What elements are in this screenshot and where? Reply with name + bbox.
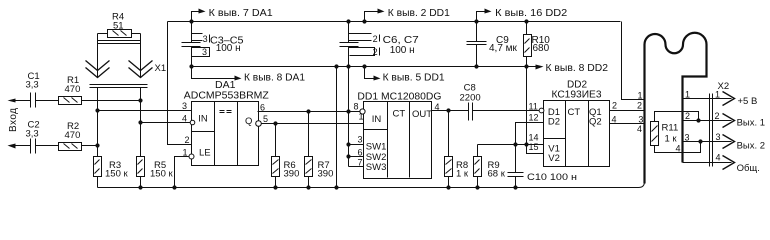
svg-text:2200: 2200 [460,92,481,103]
svg-text:51: 51 [113,21,124,32]
svg-text:Вых. 2: Вых. 2 [737,141,765,152]
svg-text:1 к: 1 к [665,134,678,145]
wire R9 to DD2 pins 14/15 [478,144,544,146]
svg-text:К выв. 8 DD2: К выв. 8 DD2 [546,63,609,74]
svg-text:3: 3 [638,115,643,125]
X1 upper bars [98,41,141,44]
svg-text:4: 4 [637,124,642,134]
svg-text:390: 390 [284,168,300,179]
svg-text:1: 1 [183,148,188,158]
ground vertical x336 [334,64,338,68]
IC DA1 box [192,102,259,166]
svg-text:8: 8 [354,102,359,112]
resistor R7 [306,109,310,113]
connector X1 [97,34,99,78]
svg-text:DD1 MC12080DG: DD1 MC12080DG [357,90,441,102]
capacitor C9 [474,19,478,23]
svg-text:X2: X2 [718,81,730,92]
svg-text:3,3: 3,3 [26,80,39,91]
IC DD2 box [544,101,610,167]
capacitor group C3-C5 [189,19,193,23]
svg-text:X1: X1 [155,63,167,74]
svg-text:LE: LE [199,148,211,159]
resistor R3 [94,157,102,177]
svg-text:CT: CT [568,107,581,118]
top +5V rail [168,21,621,23]
svg-text:100 н: 100 н [216,43,241,54]
svg-text:3: 3 [716,132,721,142]
svg-text:3: 3 [203,34,208,44]
pin16 DD2 stub arrow [477,12,486,22]
DA1 pin 5 circle + wire [256,121,262,127]
resistor R10 [524,19,528,23]
X2 bracket lines [710,94,713,167]
svg-text:2: 2 [637,101,642,111]
svg-text:3,3: 3,3 [26,128,39,139]
R11 bottom lead wire [655,142,701,153]
svg-text:14: 14 [529,133,539,143]
bottom ground rail [98,182,645,188]
svg-text:3: 3 [358,134,363,144]
svg-text:68 к: 68 к [488,168,506,179]
svg-text:C10 100 н: C10 100 н [527,172,577,183]
X1 right leg down [140,88,142,157]
pin8 DA1 stub arrow [192,67,236,79]
resistor R4 [108,30,132,38]
mid rail [192,66,536,68]
svg-text:SW3: SW3 [366,162,387,173]
capacitor C2 [31,139,36,154]
pin5 DD1 stub arrow [362,64,366,68]
svg-text:4: 4 [182,114,187,124]
resistor R2 [59,143,82,151]
wire pin3 net [98,110,192,112]
X1 plug chevrons right [129,61,153,78]
X1 socket bars [90,85,148,88]
wire R1 to X1 right leg [82,100,141,102]
DA1 pin 6 wire [258,111,361,113]
svg-text:К выв. 2 DD1: К выв. 2 DD1 [388,8,450,19]
svg-text:OUT: OUT [412,109,432,120]
svg-text:V2: V2 [548,153,560,164]
IC DD1 box [364,102,432,179]
capacitor C8 [469,103,473,121]
cable bundle with loop [645,33,707,184]
svg-text:100 н: 100 н [390,45,415,56]
wire C2-R2 [36,145,59,147]
svg-text:390: 390 [318,168,334,179]
input arrow 1 [14,100,31,102]
svg-text:15: 15 [529,142,539,152]
DD1 pin 4 out wire [432,110,469,112]
svg-text:6: 6 [358,148,363,158]
pin7 DA1 stub arrow [192,12,200,22]
svg-text:D2: D2 [548,117,560,128]
svg-text:4: 4 [716,153,721,163]
wire DA1 pin1 to ground [175,157,189,188]
svg-text:7: 7 [358,158,363,168]
R11 top lead wire [655,112,699,122]
svg-text:470: 470 [65,84,81,95]
svg-text:1 к: 1 к [456,168,469,179]
svg-text:150 к: 150 к [150,168,173,179]
capacitor C10 [508,173,524,177]
svg-text:R11: R11 [662,123,679,134]
wire DD2 pin12 branch [516,123,544,173]
svg-text:IN: IN [198,113,208,124]
resistor R9 [477,145,479,157]
svg-text:К выв. 5 DD1: К выв. 5 DD1 [383,73,445,84]
svg-text:К выв. 7 DA1: К выв. 7 DA1 [209,8,273,19]
wire X1 top bridge [98,33,141,35]
svg-text:12: 12 [529,112,539,122]
svg-text:Вых. 1: Вых. 1 [737,118,765,129]
DA1 pin 4 circle [190,120,195,125]
resistor R11 [651,122,659,146]
svg-text:5: 5 [263,114,268,124]
svg-text:3: 3 [182,101,187,111]
DD2 Q1 out [610,110,645,112]
svg-text:К выв. 16 DD2: К выв. 16 DD2 [495,8,567,19]
svg-text:Q2: Q2 [589,117,602,128]
svg-text:6: 6 [260,103,265,113]
X1 left leg down [97,88,99,157]
svg-text:2: 2 [373,34,378,44]
svg-text:3: 3 [202,47,207,57]
svg-text:IN: IN [372,114,382,125]
svg-text:2: 2 [685,111,690,121]
wire pin4 net [141,122,191,124]
pin2 DD1 stub arrow [362,19,366,23]
+5V feed wire to bundle [622,22,645,100]
svg-text:1: 1 [685,90,690,100]
svg-text:ADCMP553BRMZ: ADCMP553BRMZ [184,89,270,101]
resistor R5 [137,157,145,177]
X2 exits [683,98,732,100]
svg-text:SW1: SW1 [366,141,387,152]
DD1 pin 8 circle [360,109,365,114]
svg-text:+5 В: +5 В [738,96,758,107]
resistor R6 [273,121,277,125]
svg-text:1: 1 [638,91,643,101]
svg-text:1: 1 [359,112,364,122]
svg-text:4: 4 [612,115,617,125]
input arrow 2 [14,145,31,147]
svg-text:4,7 мк: 4,7 мк [489,43,518,54]
resistor R1 [59,97,82,105]
svg-text:Общ.: Общ. [737,163,760,174]
resistor R8 [446,108,450,112]
svg-text:680: 680 [533,43,550,54]
wire C1-R1 [36,100,59,102]
X1 plug chevrons left [86,61,110,78]
svg-text:КС193ИЕ3: КС193ИЕ3 [552,90,602,101]
svg-text:470: 470 [65,130,81,141]
wire C8 to DD2 pin 11 [473,110,540,112]
svg-text:150 к: 150 к [105,168,128,179]
svg-text:2: 2 [373,47,378,57]
svg-text:2: 2 [715,111,720,121]
capacitor C1 [31,93,36,108]
DD2 pin 11 circle [539,108,544,113]
svg-text:11: 11 [529,102,538,112]
svg-text:Q: Q [245,116,252,127]
wire rail corner to DA1 pin2 [168,22,192,145]
X2 contact arrows [723,92,735,170]
DD1 SW tie [349,145,364,167]
svg-text:2: 2 [612,101,617,111]
wire R2 to X1 left leg [82,145,98,147]
svg-text:CT: CT [393,109,406,120]
svg-text:4: 4 [435,102,440,112]
DA1 pin 1 circle [189,154,194,159]
DD2 Q2 out [610,123,645,125]
svg-text:2: 2 [185,135,190,145]
svg-text:К выв. 8 DA1: К выв. 8 DA1 [244,73,305,84]
svg-text:3: 3 [685,133,690,143]
svg-text:Вход: Вход [8,108,19,132]
comparator symbol == [220,111,232,113]
capacitor group C6 C7 [346,19,350,23]
